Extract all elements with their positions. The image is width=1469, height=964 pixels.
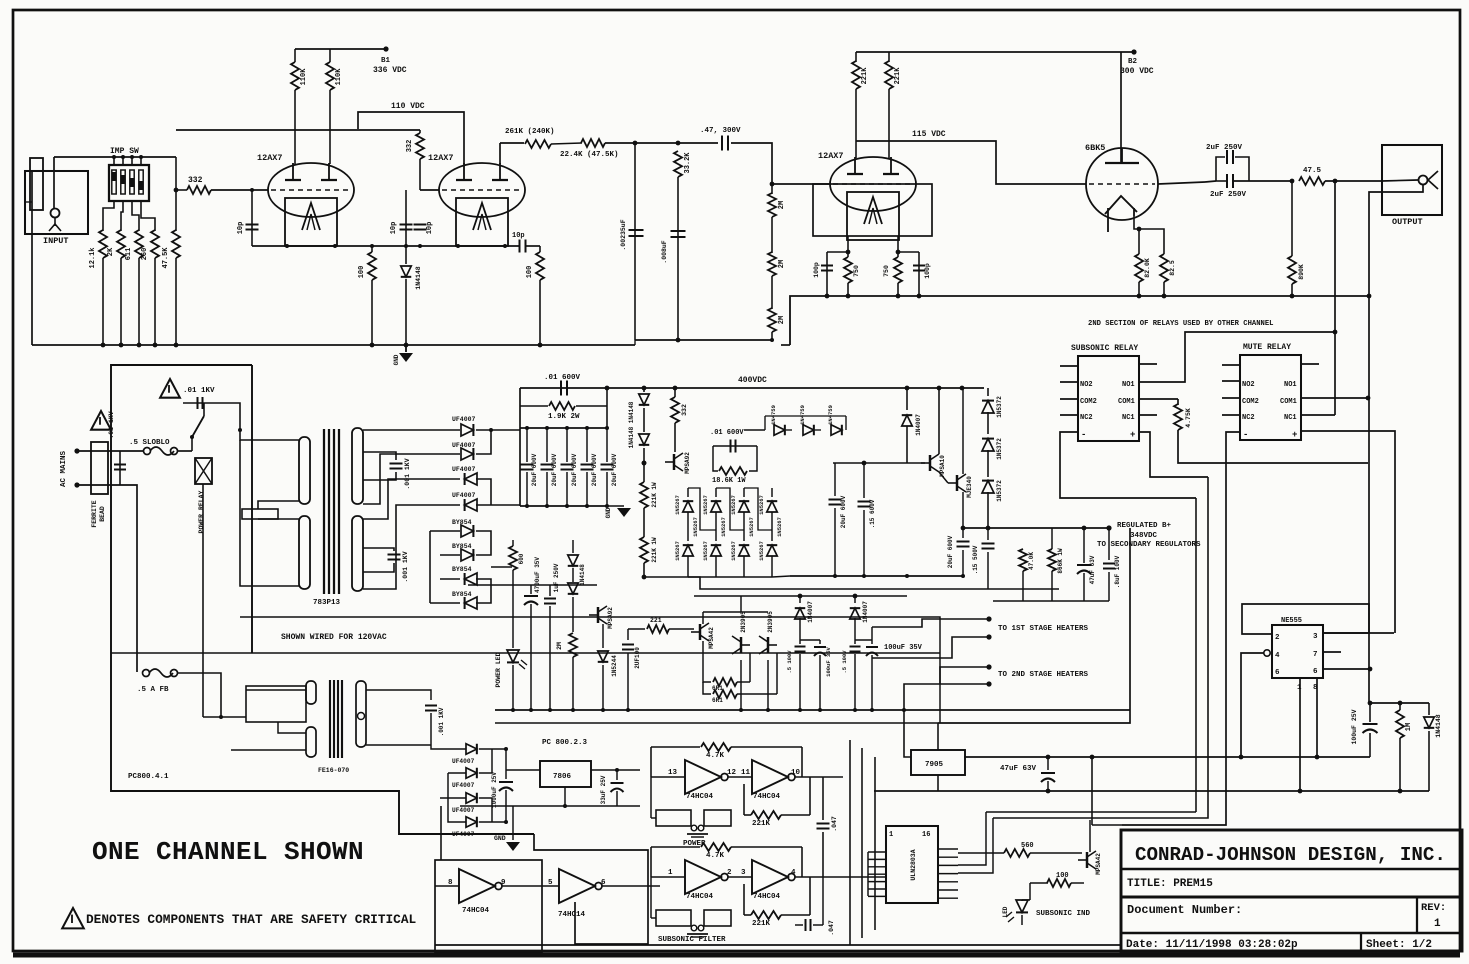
zener 1N4759 row	[744, 429, 765, 431]
cap 10p mid	[400, 223, 413, 225]
svg-text:UF4007: UF4007	[452, 416, 476, 423]
cap .001 1KV t2	[425, 704, 437, 706]
t2 primary 2	[306, 727, 316, 757]
wire mute NC1	[1301, 414, 1335, 416]
svg-text:3: 3	[741, 869, 746, 877]
wire pin6	[1323, 668, 1370, 670]
svg-text:4: 4	[791, 869, 796, 877]
svg-text:12AX7: 12AX7	[428, 153, 454, 163]
svg-text:100uF 35V: 100uF 35V	[825, 646, 832, 676]
svg-text:ULN2803A: ULN2803A	[910, 849, 917, 880]
svg-text:TITLE: PREM15: TITLE: PREM15	[1127, 878, 1213, 890]
resistor 82.0K	[1138, 229, 1140, 254]
svg-text:.001 1KV: .001 1KV	[402, 551, 409, 582]
cap .00235uF	[634, 143, 636, 340]
rail 528	[963, 527, 1109, 529]
svg-text:1: 1	[668, 869, 673, 877]
resistor 560	[958, 852, 1004, 854]
svg-text:47uF 63V: 47uF 63V	[1089, 555, 1096, 584]
rail 756	[964, 756, 1370, 758]
uln left pins	[868, 851, 886, 853]
svg-text:.8uF 100V: .8uF 100V	[1114, 555, 1121, 588]
svg-text:22.4K (47.5K): 22.4K (47.5K)	[560, 151, 619, 159]
resistor 2M a	[771, 184, 773, 194]
wire output to relays	[1334, 181, 1336, 332]
svg-text:SHOWN WIRED FOR 120VAC: SHOWN WIRED FOR 120VAC	[281, 633, 387, 642]
vertical 1092	[1091, 757, 1093, 825]
svg-text:DENOTES COMPONENTS THAT ARE SA: DENOTES COMPONENTS THAT ARE SAFETY CRITI…	[86, 912, 417, 927]
resistor 110K	[329, 49, 331, 62]
resistor 890K	[1291, 181, 1293, 256]
safety warning triangle	[62, 908, 84, 928]
relay pin stub	[1060, 398, 1078, 400]
svg-text:1N5267: 1N5267	[758, 541, 765, 561]
svg-text:332: 332	[188, 176, 203, 185]
svg-text:1N5372: 1N5372	[996, 396, 1003, 418]
gate box feed	[440, 806, 442, 860]
svg-text:BY854: BY854	[452, 543, 472, 550]
svg-text:SUBSONIC FILTER: SUBSONIC FILTER	[658, 936, 726, 944]
svg-text:UF4007: UF4007	[452, 782, 475, 789]
svg-text:.001 1KV: .001 1KV	[404, 458, 411, 489]
imp sw pin	[131, 157, 133, 165]
svg-text:FERRITE: FERRITE	[91, 500, 98, 527]
cap 100p b	[918, 252, 920, 296]
wire NO1	[1139, 332, 1335, 382]
svg-text:1N4759: 1N4759	[827, 405, 834, 425]
wire mains hot	[77, 450, 144, 452]
svg-text:UF4007: UF4007	[452, 442, 476, 449]
wires BY854	[430, 530, 460, 532]
cap .5 100V a	[799, 640, 801, 644]
svg-text:16: 16	[922, 831, 930, 839]
svg-text:4.7K: 4.7K	[706, 852, 725, 860]
svg-text:1000uF 25V: 1000uF 25V	[491, 772, 498, 808]
input jack box	[25, 171, 88, 234]
cap 100p	[826, 252, 828, 296]
routing line 653	[111, 652, 940, 654]
cap 10p mid2	[414, 223, 427, 225]
svg-text:750: 750	[853, 265, 860, 277]
svg-text:1N4148: 1N4148	[579, 564, 586, 586]
routing lines transformer to logic	[240, 617, 940, 723]
resistor 221K fb	[743, 884, 745, 915]
rc top rail	[1370, 702, 1429, 704]
wire subsonic plus	[1139, 432, 1208, 477]
mains switch blade	[191, 437, 193, 451]
svg-text:5: 5	[548, 879, 553, 887]
cap .001 1KV sec2	[363, 548, 394, 551]
heater node wire	[872, 626, 874, 628]
svg-text:221: 221	[650, 617, 662, 624]
svg-text:BY854: BY854	[452, 591, 472, 598]
resistor 6R1 b	[703, 682, 711, 694]
cap 10p series	[518, 240, 520, 253]
svg-text:20uF 600V: 20uF 600V	[840, 495, 847, 528]
svg-text:MPSA92: MPSA92	[684, 452, 691, 474]
cap 100uF 35V a	[819, 640, 821, 644]
svg-text:74HC04: 74HC04	[686, 793, 714, 801]
t2 primary wiring	[246, 686, 306, 722]
sub regulator rc	[1019, 549, 1027, 571]
svg-text:12: 12	[727, 769, 737, 777]
svg-text:1: 1	[889, 831, 893, 839]
svg-text:Sheet: 1/2: Sheet: 1/2	[1366, 939, 1432, 951]
lv rail	[468, 584, 597, 586]
svg-text:600: 600	[518, 553, 525, 564]
svg-text:FE16-070: FE16-070	[318, 767, 349, 774]
cap 20uF 600V reg	[962, 528, 964, 538]
diode UF4007 3	[465, 473, 477, 485]
rail B1 336 VDC	[295, 48, 386, 50]
svg-text:7905: 7905	[925, 761, 944, 769]
svg-text:11: 11	[741, 769, 751, 777]
svg-text:100uF 35V: 100uF 35V	[884, 644, 923, 652]
t2 sec wiring	[366, 690, 431, 700]
cap 47uF 63V reg	[1083, 528, 1085, 563]
svg-text:UF4007: UF4007	[452, 807, 475, 814]
gnd arrow psu	[607, 505, 624, 507]
svg-text:COM1: COM1	[1280, 398, 1297, 406]
wire grid link tube2	[176, 129, 420, 131]
V3 outer box	[813, 184, 932, 236]
svg-text:MPSA42: MPSA42	[1095, 853, 1102, 875]
svg-text:+: +	[1292, 430, 1297, 440]
svg-text:221K 1W: 221K 1W	[651, 482, 658, 508]
tube V1 12AX7	[268, 163, 354, 217]
svg-text:1N4007: 1N4007	[807, 601, 814, 623]
lv top rail	[694, 595, 907, 597]
svg-text:1N5267: 1N5267	[702, 541, 709, 561]
cap bank	[520, 427, 607, 429]
svg-text:UF4007: UF4007	[452, 831, 475, 838]
uln right pins	[938, 848, 958, 850]
svg-text:TO 2ND STAGE HEATERS: TO 2ND STAGE HEATERS	[998, 671, 1089, 679]
resistor 332 reg	[674, 388, 676, 397]
cap bank top rail 400VDC	[520, 387, 984, 389]
power led	[512, 585, 514, 648]
svg-text:4.75K: 4.75K	[1185, 408, 1192, 428]
subsonic relay box	[1078, 356, 1139, 441]
resistor 100 tail	[371, 246, 373, 252]
svg-text:20uF 600V: 20uF 600V	[551, 453, 558, 486]
resistor 260	[141, 201, 155, 231]
svg-text:MPSA42: MPSA42	[708, 627, 715, 649]
cap 10p V2 out	[539, 246, 541, 252]
svg-text:.01 600V: .01 600V	[710, 429, 744, 437]
tube V2 12AX7	[439, 163, 525, 217]
svg-text:221K: 221K	[752, 820, 771, 828]
gnd 7806	[564, 787, 566, 806]
secondary winding 1	[352, 428, 363, 504]
svg-text:4.7K: 4.7K	[706, 752, 725, 760]
bus 710	[495, 709, 1130, 711]
svg-text:IMP SW: IMP SW	[110, 147, 139, 156]
svg-text:.01 1KV: .01 1KV	[183, 387, 215, 395]
svg-text:Date: 11/11/1998 03:28:02p: Date: 11/11/1998 03:28:02p	[1126, 939, 1298, 951]
wire mute minus	[1122, 432, 1240, 825]
svg-text:2uF 250V: 2uF 250V	[1210, 191, 1247, 199]
wire pin7 stub	[1323, 651, 1341, 653]
svg-text:1N4759: 1N4759	[770, 405, 777, 425]
cap 4700uF 35V	[530, 585, 532, 594]
diode BY854 4	[465, 597, 477, 609]
diode 1N4007 lv a	[799, 596, 801, 603]
svg-text:NO2: NO2	[1242, 381, 1255, 389]
svg-text:1N5267: 1N5267	[674, 495, 681, 515]
bottom loop reg	[993, 600, 1109, 602]
svg-text:2M: 2M	[778, 316, 786, 324]
svg-text:560: 560	[1021, 842, 1034, 850]
svg-text:260: 260	[141, 248, 149, 261]
bottom rail logic	[435, 944, 1121, 946]
svg-text:4700uF 35V: 4700uF 35V	[534, 557, 541, 593]
transistor MJE340	[956, 475, 958, 491]
cap .5 100V b	[854, 640, 856, 644]
resistor 750	[844, 257, 852, 283]
svg-text:Document Number:: Document Number:	[1127, 903, 1242, 917]
svg-text:COM2: COM2	[1080, 398, 1097, 406]
svg-text:NC1: NC1	[1122, 414, 1135, 422]
impedance switch IMP SW	[109, 165, 149, 201]
svg-text:2uF 250V: 2uF 250V	[1206, 144, 1243, 152]
svg-text:7: 7	[1313, 651, 1318, 659]
svg-text:221K: 221K	[752, 920, 771, 928]
cap .01 600V b	[713, 445, 757, 447]
mute pin stub	[1222, 364, 1240, 366]
inverter 74HC14 pin5	[559, 869, 595, 903]
wire pin1 down	[1299, 678, 1301, 791]
diode 1N4148 a	[643, 388, 645, 392]
svg-text:1.9K 2W: 1.9K 2W	[548, 413, 580, 421]
input jack	[51, 209, 60, 218]
ferrite bead box	[91, 442, 108, 494]
cap .001 1KV sec1	[363, 452, 396, 460]
svg-text:332: 332	[406, 140, 414, 153]
svg-text:348VDC: 348VDC	[1130, 532, 1158, 540]
zener grid frame	[688, 488, 716, 530]
transistor MPSA42 ind	[1086, 852, 1088, 868]
svg-text:20uF 600V: 20uF 600V	[591, 453, 598, 486]
cap 10p grid1	[251, 190, 253, 246]
diode BY854 3	[465, 573, 477, 585]
resistor 221K 1W a	[642, 461, 647, 466]
resistor 2M b	[768, 252, 776, 276]
cap .01 600V	[560, 381, 562, 396]
resistor 221K	[888, 52, 890, 62]
transistor MPSA92 reg	[673, 454, 675, 470]
wire left ground drop	[31, 171, 33, 345]
svg-text:-: -	[1081, 430, 1086, 440]
inverter B	[728, 876, 752, 878]
diode 1N4148 lv b	[568, 583, 579, 594]
fuse .5 A FB	[143, 670, 150, 677]
svg-text:750: 750	[883, 265, 890, 277]
svg-text:33uF 25V: 33uF 25V	[600, 775, 607, 804]
rail 791	[874, 790, 1429, 792]
svg-text:SUBSONIC IND: SUBSONIC IND	[1036, 910, 1091, 918]
output line	[1158, 182, 1205, 184]
relay pin stub	[1060, 414, 1078, 416]
svg-text:3: 3	[1313, 633, 1318, 641]
led subsonic ind	[1029, 883, 1031, 900]
svg-text:10p: 10p	[237, 222, 245, 235]
diode 1N4007 reg	[906, 388, 908, 410]
svg-text:.008uF: .008uF	[661, 240, 668, 264]
cap 100uF 35V b	[871, 627, 873, 644]
resistor 47.5K	[175, 157, 177, 231]
svg-text:BY854: BY854	[452, 519, 472, 526]
svg-text:COM1: COM1	[1118, 398, 1135, 406]
resistor 221 lv	[628, 628, 645, 630]
resistor 100 ind	[1030, 882, 1048, 884]
svg-text:110K: 110K	[335, 68, 343, 86]
cap 20uF 600V	[566, 428, 568, 462]
svg-text:1N4148: 1N4148	[415, 266, 422, 290]
title divider 1	[1121, 868, 1462, 870]
wire sec to rectifiers	[363, 429, 460, 431]
svg-text:1: 1	[1434, 918, 1441, 930]
svg-text:1N5267: 1N5267	[730, 495, 737, 515]
resistor 82.5	[1160, 254, 1168, 282]
resistor 2M c	[768, 308, 776, 332]
svg-text:110K: 110K	[300, 68, 308, 86]
transistors 2N3905	[740, 637, 742, 653]
svg-text:6: 6	[1275, 669, 1280, 677]
svg-text:AC MAINS: AC MAINS	[60, 451, 68, 488]
vertical bus lines logic	[849, 740, 851, 945]
svg-text:1N5372: 1N5372	[996, 480, 1003, 502]
svg-text:1N5267: 1N5267	[748, 517, 755, 537]
wire to V3 grid	[731, 143, 772, 184]
jumper blocks	[656, 810, 691, 826]
svg-text:47.0K: 47.0K	[1028, 552, 1035, 570]
cap 2uF 250V pair	[1216, 157, 1225, 181]
svg-text:BEAD: BEAD	[99, 506, 106, 522]
svg-text:GND: GND	[605, 507, 612, 518]
zener grid 1N5267	[687, 488, 689, 497]
svg-text:.047: .047	[828, 920, 835, 936]
svg-text:6R1: 6R1	[712, 697, 723, 704]
jack	[1382, 180, 1418, 181]
resistor 110K	[294, 49, 296, 62]
svg-text:866K 1W: 866K 1W	[1057, 548, 1064, 574]
regulator 7905	[911, 750, 965, 775]
svg-text:2ND SECTION OF RELAYS USED BY: 2ND SECTION OF RELAYS USED BY OTHER CHAN…	[1088, 320, 1273, 328]
mute pin stub	[1222, 397, 1240, 399]
svg-text:NE555: NE555	[1281, 617, 1302, 625]
svg-text:.001 1KV: .001 1KV	[438, 707, 445, 736]
svg-text:2: 2	[1275, 634, 1280, 642]
routing link to gate box	[534, 834, 575, 850]
svg-text:NO2: NO2	[1080, 381, 1093, 389]
resistor 261K	[525, 140, 551, 148]
svg-text:.15 500V: .15 500V	[972, 545, 979, 574]
cap 20uF 600V	[526, 428, 528, 462]
svg-text:20uF 600V: 20uF 600V	[611, 453, 618, 486]
cap 100uF 25V	[1369, 703, 1371, 722]
svg-text:NO1: NO1	[1122, 381, 1135, 389]
resistor 1M	[1399, 703, 1401, 710]
svg-text:REV:: REV:	[1421, 902, 1446, 914]
svg-text:.5 SLOBLO: .5 SLOBLO	[129, 439, 170, 447]
diode 1N4007 lv b	[854, 596, 856, 603]
resistor 22.4K	[551, 143, 582, 144]
svg-text:1N4148: 1N4148	[1435, 714, 1442, 738]
transistor MPSA10	[929, 455, 931, 471]
svg-text:GND: GND	[494, 835, 506, 842]
svg-text:10p: 10p	[390, 222, 398, 235]
svg-text:NC2: NC2	[1242, 414, 1255, 422]
ULN2803A box	[886, 826, 938, 903]
cap 1uF 250V	[549, 585, 551, 596]
svg-text:.01 600V: .01 600V	[544, 374, 581, 382]
cathode bus tubes	[252, 245, 519, 247]
svg-text:1N5267: 1N5267	[702, 495, 709, 515]
plate wire V4	[1120, 52, 1122, 163]
jack return wire	[1369, 185, 1423, 293]
resistor 2M lv	[572, 610, 574, 632]
resistor 332 vertical	[419, 130, 421, 133]
enclosure box psu	[111, 365, 534, 834]
wire NC1 stub	[1139, 414, 1157, 416]
cap .15 600V c	[863, 463, 865, 498]
wire subsonic minus	[1060, 432, 1196, 498]
power relay coil	[195, 458, 212, 484]
svg-text:MPSA92: MPSA92	[607, 607, 614, 629]
resistor 47.5	[1290, 179, 1295, 184]
ground bus left	[32, 344, 635, 346]
warning triangle 1	[160, 379, 180, 398]
title block box	[1121, 830, 1462, 951]
cap .008uF	[671, 230, 686, 232]
resistor 600	[509, 546, 517, 570]
svg-text:82.0K: 82.0K	[1144, 258, 1151, 278]
cathode parts V3	[847, 236, 849, 252]
resistor 750 b	[894, 257, 902, 283]
resistor 611	[132, 201, 139, 231]
svg-text:GND: GND	[393, 354, 400, 365]
diode BY854 1	[461, 525, 473, 537]
wire grid V2	[420, 189, 439, 191]
resistor 6R1 a	[703, 660, 711, 682]
svg-text:611: 611	[125, 248, 133, 261]
bus 576	[790, 575, 963, 577]
wire MJE340 collector	[962, 388, 964, 440]
svg-text:NC1: NC1	[1284, 414, 1297, 422]
rev box	[1416, 897, 1418, 933]
svg-text:100: 100	[526, 266, 534, 279]
resistor 1.9K 2W	[520, 405, 548, 407]
svg-text:20uF 600V: 20uF 600V	[531, 453, 538, 486]
svg-text:1uF 250V: 1uF 250V	[553, 563, 560, 592]
svg-text:2M: 2M	[778, 201, 786, 209]
NE555 box	[1272, 625, 1323, 678]
t2 primary 1	[306, 681, 316, 704]
cap 2UF100	[627, 629, 629, 640]
wire COM1 and resistor 4.75K	[1139, 398, 1178, 400]
svg-text:1N5267: 1N5267	[776, 517, 783, 537]
pin4 bubble	[1264, 650, 1270, 656]
svg-text:B1: B1	[381, 57, 391, 65]
svg-text:TO SECONDARY REGULATORS: TO SECONDARY REGULATORS	[1097, 541, 1201, 549]
mute relay box	[1240, 355, 1301, 440]
svg-text:.15 600V: .15 600V	[869, 499, 876, 528]
svg-text:110 VDC: 110 VDC	[391, 102, 425, 111]
diode UF4007 4	[465, 499, 477, 511]
svg-text:115 VDC: 115 VDC	[912, 130, 946, 139]
cap 20uF 600V	[546, 428, 548, 462]
